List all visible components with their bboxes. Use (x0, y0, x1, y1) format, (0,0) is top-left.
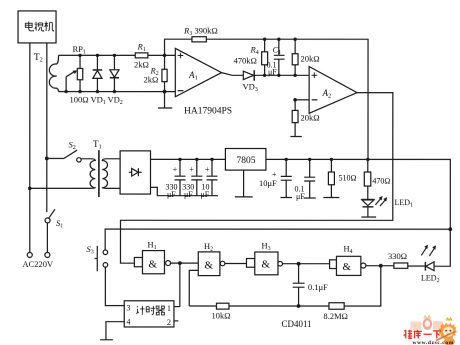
junction dot cap 330 a (178, 158, 181, 161)
terminal circle right (45, 252, 50, 257)
svg-text:&: & (342, 261, 351, 273)
bridge rectifier box (120, 151, 150, 194)
svg-text:μF: μF (200, 190, 209, 199)
svg-text:+: + (205, 165, 210, 174)
NAND gate H4 (330, 260, 337, 269)
svg-text:20kΩ: 20kΩ (301, 54, 320, 64)
svg-text:R4: R4 (250, 45, 259, 57)
resistor 20k lower (294, 100, 296, 137)
wire R3 feedback vertical (165, 39, 192, 55)
svg-text:μF: μF (184, 190, 193, 199)
junction dot 0.1uF (308, 158, 311, 161)
svg-text:4: 4 (126, 317, 130, 326)
op-amp A2 (309, 67, 357, 114)
junction dot VD2 top (113, 54, 116, 57)
wire H2 out to H3 (225, 262, 247, 264)
wire top rail to supply corner (206, 39, 368, 159)
resistor 470 (367, 159, 369, 199)
svg-text:&: & (204, 260, 213, 272)
svg-text:100Ω: 100Ω (70, 94, 89, 104)
svg-text:S1: S1 (56, 218, 63, 230)
wire A1 output (222, 73, 244, 76)
7805 ground (235, 170, 253, 197)
svg-text:VD3: VD3 (243, 82, 258, 94)
junction dot R4 top (263, 38, 266, 41)
watermark 维库一下 (404, 330, 441, 338)
wire A2 minus input (295, 99, 309, 101)
capacitor 330uF b (191, 159, 202, 195)
junction dot VD1 top (96, 54, 99, 57)
svg-text:T1: T1 (93, 139, 102, 151)
svg-text:RP1: RP1 (73, 44, 86, 56)
svg-text:R3 390kΩ: R3 390kΩ (183, 25, 218, 37)
svg-text:H1: H1 (147, 239, 156, 251)
wire 330 to LED2 (408, 265, 426, 267)
wire S3 top to +5V line2 (105, 229, 450, 250)
junction dot 20k lower (293, 98, 297, 102)
junction dot R2 bottom (163, 90, 167, 94)
svg-text:μF: μF (167, 190, 176, 199)
svg-text:&: & (261, 259, 270, 271)
wire H1 out to H2 (171, 262, 199, 264)
svg-text:2: 2 (167, 318, 171, 327)
RP1 wiper arrow (66, 72, 74, 91)
junction dot 10uF b (285, 158, 288, 161)
wire H2 lower input to RC line (189, 270, 198, 306)
wire A2 output to H1 input (long path) (120, 93, 392, 264)
switch S2 (45, 157, 49, 161)
junction dot R2 top (163, 54, 167, 58)
timer pin4 wire and ground (100, 322, 124, 340)
resistor R2 (164, 55, 166, 91)
junction dot 470 (366, 158, 369, 161)
svg-text:H3: H3 (261, 241, 270, 253)
resistor 8.2M (329, 303, 344, 310)
wire TV left down (29, 43, 31, 252)
junction dot RP1 top (78, 54, 81, 57)
switch S1 (45, 218, 50, 223)
wire bridge to 7805 (151, 158, 226, 160)
svg-text:S2: S2 (69, 139, 76, 151)
diode VD2 (113, 55, 115, 91)
resistor R4 (264, 39, 266, 75)
svg-text:μF: μF (268, 68, 277, 77)
transformer T1 primary (30, 159, 96, 189)
svg-text:510Ω: 510Ω (338, 174, 356, 183)
ground under 20k lower (290, 136, 301, 138)
junction dot 20k bottom (293, 74, 296, 77)
svg-text:470Ω: 470Ω (372, 177, 390, 186)
junction dot RC cap (297, 304, 301, 308)
svg-text:8.2MΩ: 8.2MΩ (323, 311, 348, 321)
timer pin2 stub (174, 320, 178, 322)
diode VD1 (96, 55, 98, 91)
svg-text:7805: 7805 (237, 156, 256, 166)
junction dot R4 bottom (263, 74, 266, 77)
bridge diode symbol (129, 168, 142, 176)
capacitor 0.1uF RC (293, 264, 305, 306)
LED2 (424, 262, 426, 271)
svg-text:2kΩ: 2kΩ (134, 59, 149, 69)
svg-text:R1: R1 (137, 41, 146, 53)
svg-text:+: + (189, 165, 194, 174)
svg-text:2kΩ: 2kΩ (144, 74, 159, 84)
resistor R1 (135, 53, 148, 58)
svg-text:10kΩ: 10kΩ (211, 310, 230, 320)
op-amp A1 (175, 48, 221, 96)
svg-text:VD2: VD2 (108, 94, 123, 106)
junction dot H1 out (178, 261, 182, 265)
regulator 7805 box (225, 148, 266, 170)
capacitor 10uF a (206, 159, 217, 195)
resistor 10k (216, 303, 229, 309)
resistor 510 (323, 159, 339, 197)
svg-text:T2: T2 (34, 52, 43, 64)
ground under A1 (158, 92, 172, 108)
svg-text:LED2: LED2 (421, 274, 440, 285)
svg-text:HA17904PS: HA17904PS (184, 106, 232, 116)
svg-text:H4: H4 (343, 244, 352, 256)
svg-text:C1: C1 (273, 45, 282, 57)
wire TV right down (to S1) (46, 43, 48, 212)
transformer T2 secondary coil (49, 55, 58, 91)
svg-text:3: 3 (126, 303, 130, 312)
svg-text:1: 1 (167, 304, 171, 313)
junction dot cap 330 b (195, 158, 198, 161)
resistor R3 (192, 37, 206, 42)
wire S3 bottom to timer pin3 (105, 267, 124, 305)
resistor 20k upper (294, 39, 296, 75)
node: secondary top rail (59, 54, 136, 56)
svg-text:10μF: 10μF (259, 178, 277, 188)
transformer T1 secondary (102, 159, 120, 189)
svg-text:AC220V: AC220V (22, 259, 54, 269)
junction dot 510 (330, 158, 333, 161)
svg-text:www.dzsc.com: www.dzsc.com (412, 340, 453, 345)
timer pin1 wire (174, 306, 180, 308)
wire H4 out (366, 265, 394, 267)
LED1 arrows (375, 198, 385, 206)
terminal circle left (27, 252, 32, 257)
junction dot RP1 bottom (78, 90, 81, 93)
LED1 (361, 198, 374, 200)
svg-text:S3: S3 (86, 244, 93, 256)
potentiometer RP1 (79, 55, 81, 91)
label 计时器 (136, 306, 164, 315)
label 电视机 (25, 21, 53, 31)
svg-text:470kΩ: 470kΩ (234, 56, 257, 66)
capacitor 330uF a (174, 159, 185, 195)
svg-text:μF: μF (296, 192, 305, 201)
junction dot 20k top (293, 38, 296, 41)
junction dot VD2 bottom (113, 90, 116, 93)
capacitor C1 (274, 39, 285, 75)
NAND gate H3 (246, 259, 254, 268)
switch S3 (95, 246, 98, 272)
junction dot wiper bottom (64, 90, 67, 93)
svg-text:20kΩ: 20kΩ (301, 113, 320, 123)
wire 7805 output rail to right corner and LED2 (266, 159, 450, 266)
transformer T1 core (98, 150, 100, 197)
diode VD3 (243, 71, 253, 79)
ground rail from bridge (150, 187, 218, 195)
capacitor 10uF b (280, 159, 291, 197)
svg-text:VD1: VD1 (91, 94, 106, 106)
svg-text:LED1: LED1 (394, 198, 413, 209)
timer IC box (124, 301, 174, 327)
svg-text:+: + (173, 165, 178, 174)
junction dot left rail primary (28, 187, 32, 191)
junction dot C1 top (277, 38, 280, 41)
svg-text:0.1μF: 0.1μF (308, 282, 328, 292)
junction dot C1 bottom (277, 74, 280, 77)
watermark mascot (436, 318, 457, 345)
RC bottom line with 10k and 8.2M (189, 266, 381, 306)
svg-text:H2: H2 (204, 241, 213, 253)
watermark faint badge and text (410, 315, 443, 330)
junction dot H4 out (379, 264, 383, 268)
junction dot cap 10 (210, 158, 213, 161)
wire H1 out down to pin1 (179, 263, 181, 307)
svg-text:&: & (148, 258, 157, 270)
junction dot right vertical line2 (448, 227, 452, 231)
wire H3 out to H4 (282, 263, 329, 265)
LED2 arrows (421, 247, 434, 256)
capacitor 0.1uF power (304, 159, 316, 198)
resistor 330 (394, 263, 408, 268)
TV set box 电视机 (18, 11, 56, 43)
svg-text:CD4011: CD4011 (281, 319, 311, 329)
NAND gate H2 (198, 252, 220, 276)
junction dot VD1 bottom (96, 90, 99, 93)
node: secondary bottom rail (59, 91, 176, 93)
svg-text:330Ω: 330Ω (388, 251, 407, 261)
junction dot H3 out (297, 262, 301, 266)
NAND gate H1 (134, 257, 142, 266)
